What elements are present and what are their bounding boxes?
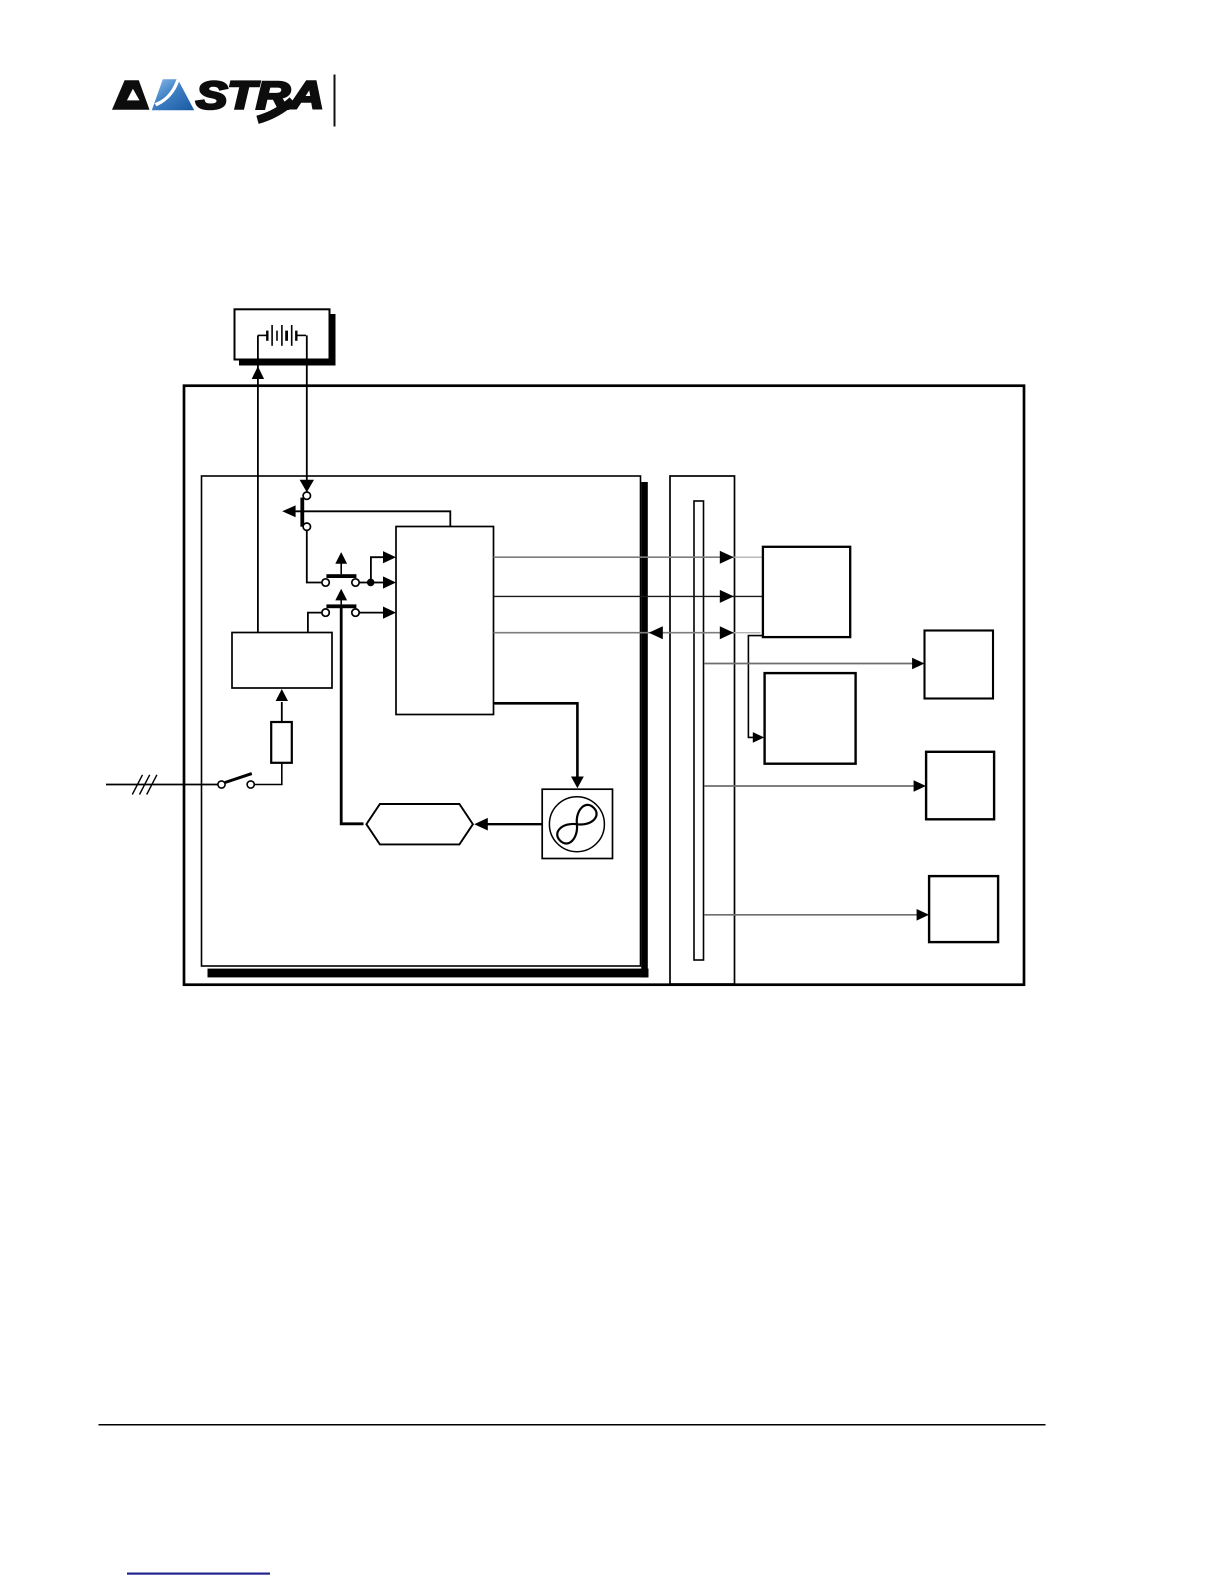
- inner box: [202, 476, 641, 966]
- infinity symbol: [554, 802, 600, 847]
- arrow up at SW2: [340, 562, 342, 574]
- footer blue line: [127, 1573, 270, 1575]
- arrow codec to hexagon: [487, 823, 542, 825]
- wire SW1 to controller top: [294, 511, 450, 526]
- hash marks: [132, 775, 157, 795]
- arrow down to SW1: [300, 480, 314, 493]
- svg-text:STRA: STRA: [196, 75, 324, 118]
- hexagon handset: [366, 804, 473, 844]
- line3 bidirectional: [494, 632, 734, 634]
- wire resistor to SW4: [254, 763, 282, 785]
- switch SW3 (lower): [322, 604, 359, 616]
- bus container: [670, 476, 735, 984]
- wire node branch to controller upper: [371, 557, 386, 582]
- power input wire: [106, 784, 218, 786]
- wire node to controller: [371, 582, 386, 584]
- arrow up at SW3: [340, 599, 342, 604]
- arrow left at SW1: [282, 505, 295, 517]
- wire battery right lead to SW1: [306, 335, 308, 481]
- switch SW2 (middle): [322, 574, 359, 586]
- charger box: [232, 633, 332, 689]
- codec box with infinity: [542, 789, 612, 858]
- bus line to box3: [705, 785, 915, 787]
- arrow up into battery: [252, 366, 264, 379]
- bus line to box4: [705, 914, 918, 916]
- letter A1: [112, 80, 150, 109]
- box4: [929, 876, 998, 942]
- bus bar: [694, 501, 704, 960]
- box2: [925, 631, 994, 699]
- resistor: [271, 722, 292, 763]
- wire SW3 bar down to hexagon: [341, 608, 363, 824]
- switch SW1 (top changeover): [300, 492, 310, 530]
- controller box: [396, 527, 494, 715]
- wire controller to codec: [494, 703, 578, 777]
- battery box: [235, 309, 336, 365]
- blue letter A2: [152, 79, 194, 110]
- wire battery left lead to charger: [257, 335, 259, 632]
- connector box1 to midbox: [748, 636, 763, 738]
- midbox: [765, 673, 856, 764]
- AASTRA logo: [112, 75, 324, 120]
- bus line to box2: [705, 663, 914, 665]
- footer rule: [99, 1424, 1046, 1426]
- box1 RAM: [763, 547, 850, 637]
- inner box shadow: [641, 482, 648, 977]
- wire SW1 to SW2: [307, 530, 323, 583]
- box3: [926, 752, 994, 820]
- letter R leg: [258, 101, 293, 120]
- wire SW2 to node dot: [359, 582, 371, 584]
- outer box: [184, 386, 1024, 985]
- line1 controller to RAM: [494, 556, 734, 558]
- wire SW3 to controller: [359, 612, 386, 614]
- logo separator bar: [334, 75, 336, 127]
- power switch SW4: [218, 774, 254, 789]
- battery symbol: [258, 325, 306, 346]
- wire SW3 left to charger top: [308, 613, 323, 632]
- arrow resistor to charger: [281, 702, 283, 722]
- node dot: [367, 579, 375, 587]
- line2 controller to RAM: [494, 595, 763, 597]
